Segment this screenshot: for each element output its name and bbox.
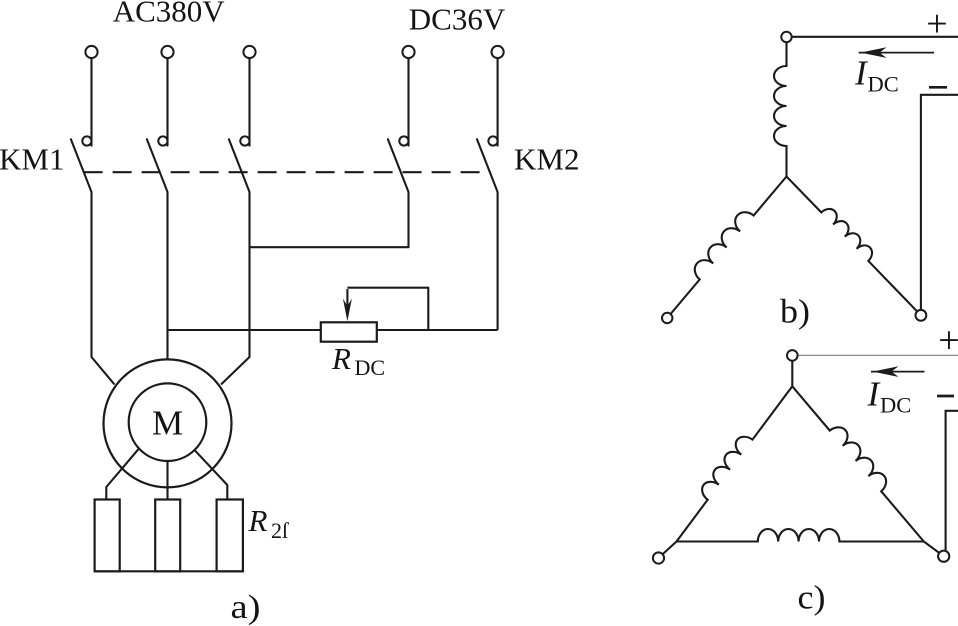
svg-text:DC: DC <box>355 355 386 380</box>
svg-text:c): c) <box>798 580 826 617</box>
svg-text:a): a) <box>231 589 261 626</box>
svg-text:DC: DC <box>880 393 911 418</box>
svg-text:R: R <box>248 503 268 538</box>
svg-text:KM2: KM2 <box>514 141 579 176</box>
svg-text:DC: DC <box>868 72 899 97</box>
svg-text:R: R <box>331 341 351 376</box>
svg-text:+: + <box>926 3 947 45</box>
svg-text:M: M <box>152 404 183 443</box>
svg-text:2ſ: 2ſ <box>271 518 289 543</box>
svg-text:KM1: KM1 <box>0 142 64 177</box>
svg-text:AC380V: AC380V <box>113 0 226 28</box>
svg-text:+: + <box>938 320 958 362</box>
svg-text:b): b) <box>780 293 810 330</box>
svg-text:DC36V: DC36V <box>409 1 506 36</box>
